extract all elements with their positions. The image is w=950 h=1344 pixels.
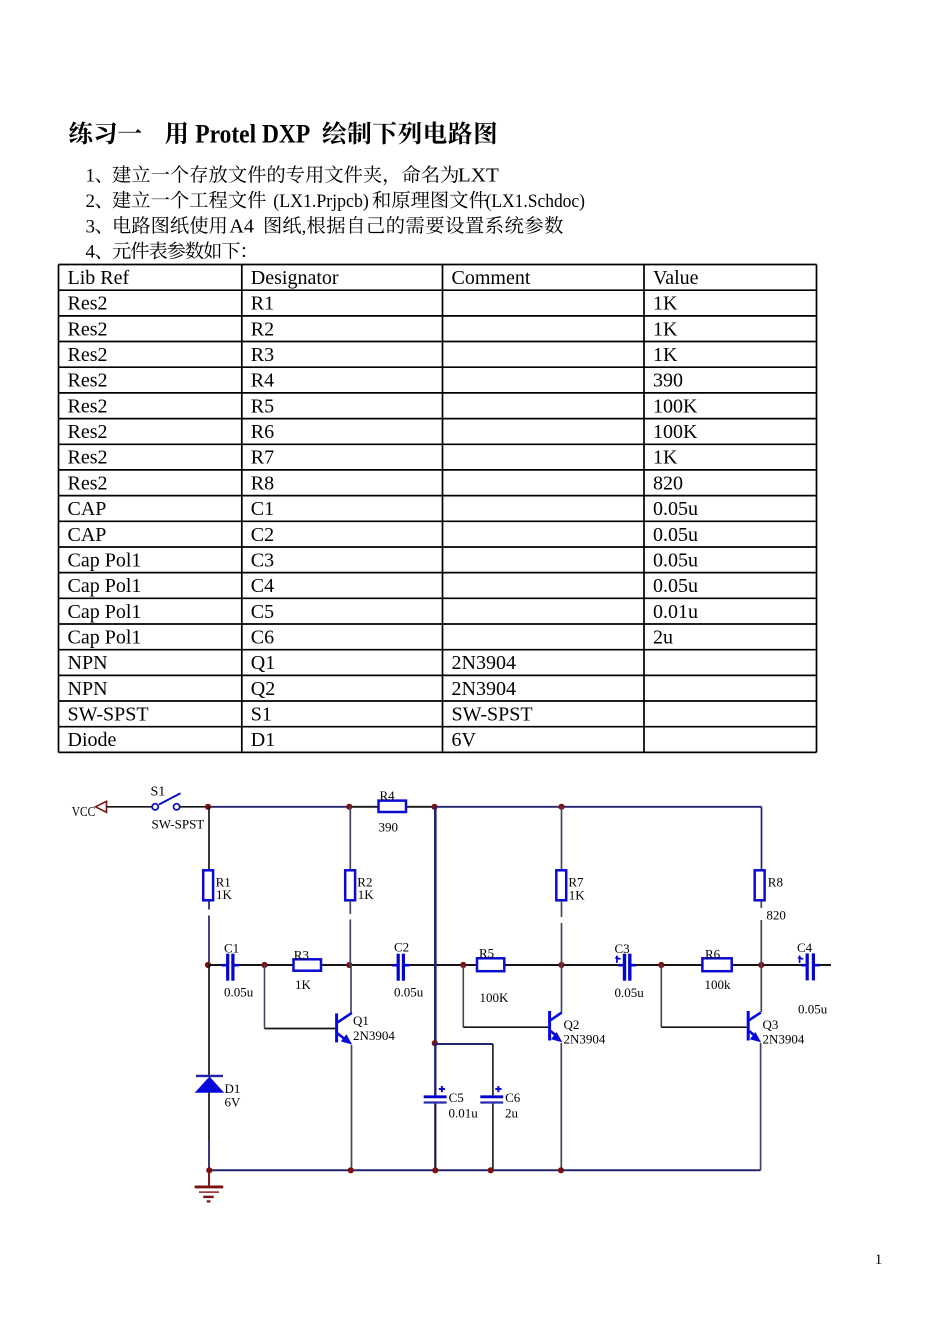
svg-text:R5: R5 <box>479 946 494 961</box>
switch S1 <box>152 793 180 810</box>
svg-text:2N3904: 2N3904 <box>353 1028 395 1043</box>
svg-text:C2: C2 <box>251 524 274 546</box>
junction R5 left / Q2 base tap <box>460 962 466 968</box>
wire R2 to node <box>349 920 351 966</box>
junction R1/C1 <box>205 962 211 968</box>
svg-text:Comment: Comment <box>452 267 531 289</box>
wire node to Q1 collector <box>350 965 352 1014</box>
wire down to C6 <box>492 1044 494 1095</box>
svg-text:100k: 100k <box>705 977 732 992</box>
wire to Q2 base <box>463 1026 548 1028</box>
wire rail to R2 <box>349 807 351 870</box>
svg-text:R1: R1 <box>251 293 274 315</box>
wire node to Q2 collector <box>561 965 563 1012</box>
transistor Q2 <box>550 1011 562 1041</box>
svg-text:(LX1.Prjpcb): (LX1.Prjpcb) <box>273 191 369 212</box>
svg-text:0.05u: 0.05u <box>224 985 254 1000</box>
svg-text:2N3904: 2N3904 <box>452 652 516 674</box>
svg-text:C5: C5 <box>251 601 274 623</box>
wire R7 to node <box>561 923 563 965</box>
svg-text:0.05u: 0.05u <box>394 985 424 1000</box>
capacitor C4 <box>801 953 819 980</box>
resistor R3 <box>294 959 322 970</box>
wire Q1 base tap down <box>264 965 266 1029</box>
svg-text:0.05u: 0.05u <box>653 549 698 571</box>
wire node to R1 top <box>208 807 210 870</box>
bus wire R4 node to C5 node <box>434 807 437 1043</box>
resistor R1 <box>203 870 213 900</box>
svg-text:R3: R3 <box>251 344 274 366</box>
table <box>59 265 817 753</box>
svg-text:R5: R5 <box>251 395 274 417</box>
svg-text:1K: 1K <box>358 887 375 902</box>
svg-text:C2: C2 <box>394 940 409 955</box>
wire C5 bottom to ground rail <box>434 1104 436 1171</box>
svg-text:C6: C6 <box>505 1090 521 1105</box>
svg-text:Res2: Res2 <box>68 472 108 494</box>
svg-text:Res2: Res2 <box>68 395 108 417</box>
capacitor C3 <box>618 954 636 981</box>
resistor R8 <box>755 870 765 900</box>
wire bus to C5 top <box>434 1043 436 1095</box>
svg-text:Res2: Res2 <box>68 447 108 469</box>
svg-text:R3: R3 <box>294 948 309 963</box>
svg-text:1K: 1K <box>295 977 312 992</box>
svg-text:R8: R8 <box>768 875 783 890</box>
svg-text:0.01u: 0.01u <box>653 601 698 623</box>
wire Q2 emitter to ground rail <box>560 1043 562 1170</box>
ground rail <box>209 1169 761 1171</box>
svg-text:0.05u: 0.05u <box>653 498 698 520</box>
wire to D1 <box>208 965 210 1076</box>
wire VCC to S1 <box>107 806 152 808</box>
wire rail corner to R8 <box>761 807 763 870</box>
svg-text:390: 390 <box>653 370 683 392</box>
svg-text:C3: C3 <box>615 941 630 956</box>
wire Q1 emitter to ground rail <box>351 1045 353 1170</box>
capacitor C6 (polarized) <box>480 1097 503 1103</box>
svg-text:1K: 1K <box>216 887 233 902</box>
svg-text:1K: 1K <box>653 318 678 340</box>
svg-text:Value: Value <box>653 267 699 289</box>
svg-text:1K: 1K <box>653 293 678 315</box>
wire node down (Q2 base) <box>462 965 464 1027</box>
wire rail to R7 <box>561 807 563 870</box>
svg-text:CAP: CAP <box>68 524 107 546</box>
junction ground node <box>206 1167 212 1173</box>
svg-text:Q3: Q3 <box>763 1017 779 1032</box>
junction C3 right / Q3 base tap <box>658 962 664 968</box>
svg-text:R8: R8 <box>251 472 274 494</box>
junction at R7 top <box>558 804 564 810</box>
C3 polarity mark <box>617 957 621 963</box>
transistor Q1 <box>337 1013 352 1043</box>
svg-text:R7: R7 <box>251 447 274 469</box>
wire top rail right <box>435 806 762 808</box>
svg-text:C1: C1 <box>251 498 274 520</box>
svg-text:R4: R4 <box>380 788 396 803</box>
wire Q3 emitter to ground rail <box>760 1043 762 1170</box>
wire node down (Q3 base) <box>660 965 662 1027</box>
svg-text:C1: C1 <box>224 941 239 956</box>
svg-text:0.05u: 0.05u <box>798 1002 828 1017</box>
svg-text:Designator: Designator <box>251 267 339 289</box>
svg-text:Res2: Res2 <box>68 293 108 315</box>
title <box>69 121 141 144</box>
svg-text:NPN: NPN <box>68 652 108 674</box>
wire R5 to C3 <box>504 964 623 966</box>
wire C2 to R5 <box>405 964 477 966</box>
wire R3 to C2 <box>321 964 397 966</box>
svg-text:820: 820 <box>766 907 786 922</box>
wire R2 bottom <box>349 901 351 914</box>
wire R1 to signal row <box>208 916 210 966</box>
junction bus / C5-C6 branch <box>432 1040 438 1046</box>
svg-text:Q2: Q2 <box>564 1017 580 1032</box>
resistor R6 <box>702 958 731 971</box>
svg-text:C5: C5 <box>449 1090 464 1105</box>
svg-text:Q1: Q1 <box>353 1013 369 1028</box>
wire R4 to bus node <box>406 806 435 808</box>
junction R2/Q1 collector node <box>346 962 352 968</box>
wire C5 node to C6 branch <box>435 1043 493 1045</box>
svg-text:D1: D1 <box>251 729 275 751</box>
wire R8 to node <box>760 920 762 965</box>
svg-text:0.05u: 0.05u <box>653 575 698 597</box>
svg-text:R6: R6 <box>251 421 274 443</box>
svg-text:CAP: CAP <box>68 498 107 520</box>
svg-text:2u: 2u <box>653 626 673 648</box>
wire D1 down <box>208 1093 210 1141</box>
svg-text:2: 2 <box>86 191 96 212</box>
junction Q2 emitter node <box>558 1167 564 1173</box>
junction at R2 top tap <box>346 804 352 810</box>
svg-text:820: 820 <box>653 472 683 494</box>
wire signal row seg1 <box>208 964 226 966</box>
wire C6 bottom to ground rail <box>492 1104 494 1171</box>
power port VCC <box>96 801 107 812</box>
wire R1 bottom <box>208 901 210 910</box>
svg-text:C3: C3 <box>251 549 274 571</box>
junction Q1 emitter node <box>348 1167 354 1173</box>
C6 polarity mark <box>495 1086 501 1092</box>
junction R7/Q2 collector node <box>558 962 564 968</box>
svg-text:NPN: NPN <box>68 678 108 700</box>
svg-text:SW-SPST: SW-SPST <box>68 704 149 726</box>
svg-text:SW-SPST: SW-SPST <box>452 704 533 726</box>
svg-text:R2: R2 <box>251 318 274 340</box>
svg-text:1K: 1K <box>653 447 678 469</box>
svg-text:LXT: LXT <box>458 165 499 187</box>
svg-text:4: 4 <box>86 242 96 263</box>
junction C6 node <box>488 1167 494 1173</box>
svg-text:3: 3 <box>86 216 96 237</box>
resistor R7 <box>556 870 566 900</box>
svg-text:2u: 2u <box>505 1106 519 1121</box>
svg-text:1K: 1K <box>653 344 678 366</box>
svg-text:6V: 6V <box>225 1095 242 1110</box>
transistor Q3 <box>748 1011 761 1041</box>
svg-text:100K: 100K <box>480 990 510 1005</box>
svg-text:1: 1 <box>875 1252 883 1268</box>
capacitor C5 (polarized) <box>424 1097 447 1103</box>
ground <box>195 1170 224 1201</box>
svg-text:Cap Pol1: Cap Pol1 <box>68 626 142 648</box>
svg-text:R6: R6 <box>705 947 721 962</box>
wire C4 output <box>815 964 831 966</box>
junction at bus top <box>431 804 437 810</box>
wire S1 to node <box>180 806 208 808</box>
wire R8 bottom <box>760 901 762 908</box>
svg-text:C4: C4 <box>251 575 274 597</box>
svg-text:Res2: Res2 <box>68 370 108 392</box>
C5 polarity mark <box>439 1086 445 1092</box>
svg-text:390: 390 <box>379 820 399 835</box>
junction C5 node <box>432 1167 438 1173</box>
svg-text:SW-SPST: SW-SPST <box>152 817 205 832</box>
svg-text:100K: 100K <box>653 421 698 443</box>
svg-text:VCC: VCC <box>72 804 96 819</box>
svg-text:Q1: Q1 <box>251 652 275 674</box>
svg-text:Res2: Res2 <box>68 318 108 340</box>
junction at S1 output <box>205 804 211 810</box>
svg-text:0.01u: 0.01u <box>449 1106 479 1121</box>
svg-text:Diode: Diode <box>68 729 117 751</box>
junction R8/Q3 collector node <box>758 962 764 968</box>
wire to Q3 base <box>661 1026 746 1028</box>
C4 polarity mark <box>800 957 804 963</box>
resistor R4 <box>379 801 407 812</box>
svg-text:C4: C4 <box>797 940 813 955</box>
svg-text:2N3904: 2N3904 <box>763 1032 805 1047</box>
svg-text:2N3904: 2N3904 <box>452 678 516 700</box>
svg-text:,: , <box>302 216 307 237</box>
wire to R4 left <box>349 806 378 808</box>
svg-text:100K: 100K <box>653 395 698 417</box>
svg-text:S1: S1 <box>151 785 166 800</box>
resistor R5 <box>477 958 504 971</box>
svg-text:A4: A4 <box>229 215 254 237</box>
svg-text:1: 1 <box>86 166 96 187</box>
wire to Q1 base <box>265 1028 337 1030</box>
svg-text:C6: C6 <box>251 626 274 648</box>
wire node to Q3 collector <box>760 965 762 1012</box>
svg-text:1K: 1K <box>569 888 586 903</box>
svg-text:Protel DXP: Protel DXP <box>195 119 310 148</box>
capacitor C2 <box>392 954 409 981</box>
svg-text:Cap Pol1: Cap Pol1 <box>68 575 142 597</box>
svg-text:2N3904: 2N3904 <box>564 1032 606 1047</box>
svg-text:Res2: Res2 <box>68 344 108 366</box>
svg-text:6V: 6V <box>452 729 477 751</box>
svg-text:Res2: Res2 <box>68 421 108 443</box>
resistor R2 <box>345 870 355 900</box>
wire top rail left <box>208 806 349 808</box>
wire C1 to R3 <box>235 964 294 966</box>
svg-text:Q2: Q2 <box>251 678 275 700</box>
wire D1 to ground rail <box>208 1141 210 1170</box>
svg-text:0.05u: 0.05u <box>615 985 645 1000</box>
svg-text:0.05u: 0.05u <box>653 524 698 546</box>
capacitor C1 <box>222 954 239 981</box>
svg-text:Cap Pol1: Cap Pol1 <box>68 601 142 623</box>
svg-text:Cap Pol1: Cap Pol1 <box>68 549 142 571</box>
junction C1/R3 (base tap Q1) <box>261 962 267 968</box>
wire R7 bottom <box>561 901 563 917</box>
wire C3 to R6 <box>632 964 702 966</box>
wire R6 to C4 <box>732 964 806 966</box>
svg-text:Lib Ref: Lib Ref <box>68 267 130 289</box>
diode D1 (zener 6V) <box>195 1076 225 1093</box>
svg-text:R4: R4 <box>251 370 274 392</box>
svg-text:(LX1.Schdoc): (LX1.Schdoc) <box>486 191 586 212</box>
svg-text:S1: S1 <box>251 704 272 726</box>
